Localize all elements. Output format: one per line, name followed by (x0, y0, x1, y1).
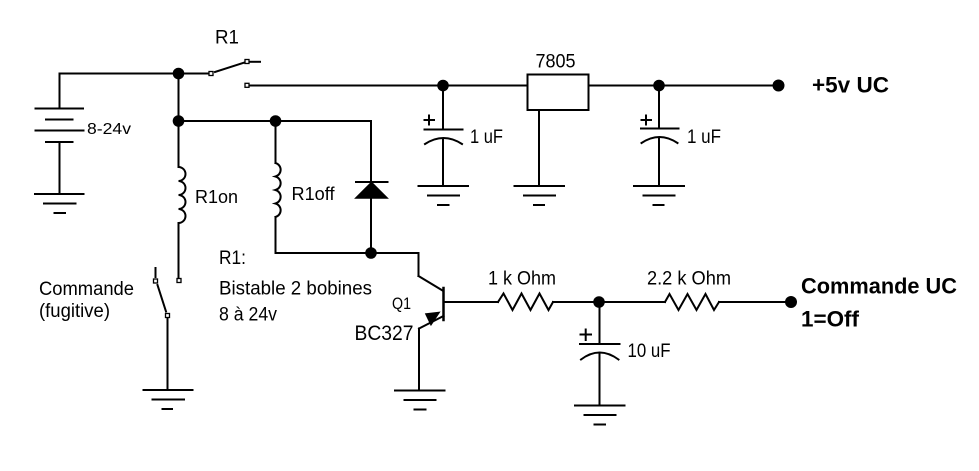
label 1 k Ohm (488, 269, 556, 290)
wire battery top to node A (60, 73, 179, 75)
wire R3 to output terminal (719, 301, 791, 303)
svg-text:1 uF: 1 uF (687, 127, 721, 148)
battery B1 8-24v (36, 74, 84, 194)
ground (pushbutton) (144, 390, 193, 409)
label BC327 (355, 322, 414, 345)
label 8-24v (87, 121, 131, 138)
svg-text:1 uF: 1 uF (470, 127, 503, 148)
ground (C1) (419, 186, 469, 205)
label + (C2) (642, 116, 652, 125)
label Commande (39, 279, 134, 300)
wire 7805 ground lead (538, 110, 540, 186)
label (fugitive) (39, 301, 110, 322)
capacitor C2 1uF (641, 86, 679, 187)
capacitor C1 1uF (425, 86, 463, 187)
label R1: note (219, 248, 246, 269)
svg-text:(fugitive): (fugitive) (39, 301, 110, 322)
label 10 uF (628, 341, 671, 362)
svg-text:Commande UC: Commande UC (801, 274, 957, 299)
label 1 uF (C1) (470, 127, 503, 148)
node A (battery / relay common) (173, 68, 185, 80)
diode D1 (flyback) (356, 121, 388, 253)
label 1=Off (801, 307, 860, 332)
svg-text:8-24v: 8-24v (87, 121, 131, 138)
node F (cap2 top) (653, 80, 665, 92)
label R1on (195, 187, 238, 207)
svg-text:BC327: BC327 (355, 322, 414, 345)
wire +5v rail 7805 to output (589, 85, 779, 87)
label R1off (292, 184, 336, 204)
label + (C3) (581, 330, 592, 341)
ground (7805) (515, 186, 565, 205)
svg-text:7805: 7805 (536, 52, 576, 73)
wire node D to transistor collector (418, 253, 420, 276)
node C (R1off top) (270, 115, 282, 127)
ground (emitter Q1) (395, 391, 445, 410)
svg-text:8 à 24v: 8 à 24v (219, 305, 277, 326)
label + (C1) (425, 116, 435, 125)
svg-text:R1:: R1: (219, 248, 246, 269)
coil R1off (276, 121, 281, 253)
wire node B to node C (179, 120, 276, 122)
label Commande UC (801, 274, 957, 299)
ground (C3) (575, 406, 625, 425)
label 2.2 k Ohm (647, 269, 731, 290)
resistor R3 2.2 k Ohm (665, 294, 719, 310)
label +5v UC (812, 73, 889, 98)
svg-text:Q1: Q1 (392, 294, 411, 313)
node E (cap1 top) (437, 80, 449, 92)
label 7805 (536, 52, 576, 73)
label 8 a 24v (219, 305, 277, 326)
label R1 (relay contact) (215, 28, 239, 49)
node Commande UC terminal (785, 296, 797, 308)
label Q1 (392, 294, 411, 313)
svg-text:10 uF: 10 uF (628, 341, 671, 362)
node B (coil rail left) (173, 115, 185, 127)
capacitor C3 10uF (580, 302, 620, 406)
svg-text:R1: R1 (215, 28, 239, 49)
node D (coil/diode/collector junction) (365, 247, 377, 259)
wire coil bottom rail (276, 252, 419, 254)
label Bistable 2 bobines (219, 279, 372, 300)
ground (battery) (35, 194, 84, 213)
resistor R2 1 k Ohm (498, 294, 553, 311)
node +5v terminal (773, 80, 785, 92)
wire node C to diode top (276, 120, 372, 122)
svg-text:Commande: Commande (39, 279, 134, 300)
svg-text:1 k Ohm: 1 k Ohm (488, 269, 556, 290)
svg-text:+5v UC: +5v UC (812, 73, 889, 98)
wire base lead Q1 to R2 (445, 301, 498, 303)
pushbutton switch (fugitive) (154, 268, 182, 390)
coil R1on (179, 121, 186, 277)
svg-text:R1off: R1off (292, 184, 336, 204)
wire relay output to 7805 rail (250, 85, 527, 87)
regulator U1 7805 (528, 75, 589, 111)
svg-text:Bistable 2 bobines: Bistable 2 bobines (219, 279, 372, 300)
wire node A down to node B (178, 74, 180, 122)
node G (R2/R3/C3 junction) (593, 296, 605, 308)
svg-text:2.2 k Ohm: 2.2 k Ohm (647, 269, 731, 290)
wire R2 to node G (553, 301, 665, 303)
ground (C2) (634, 186, 684, 205)
relay switch R1 contact (185, 60, 261, 88)
svg-text:R1on: R1on (195, 187, 238, 207)
label 1 uF (C2) (687, 127, 721, 148)
svg-text:1=Off: 1=Off (801, 307, 860, 332)
transistor Q1 BC327 (419, 276, 444, 391)
